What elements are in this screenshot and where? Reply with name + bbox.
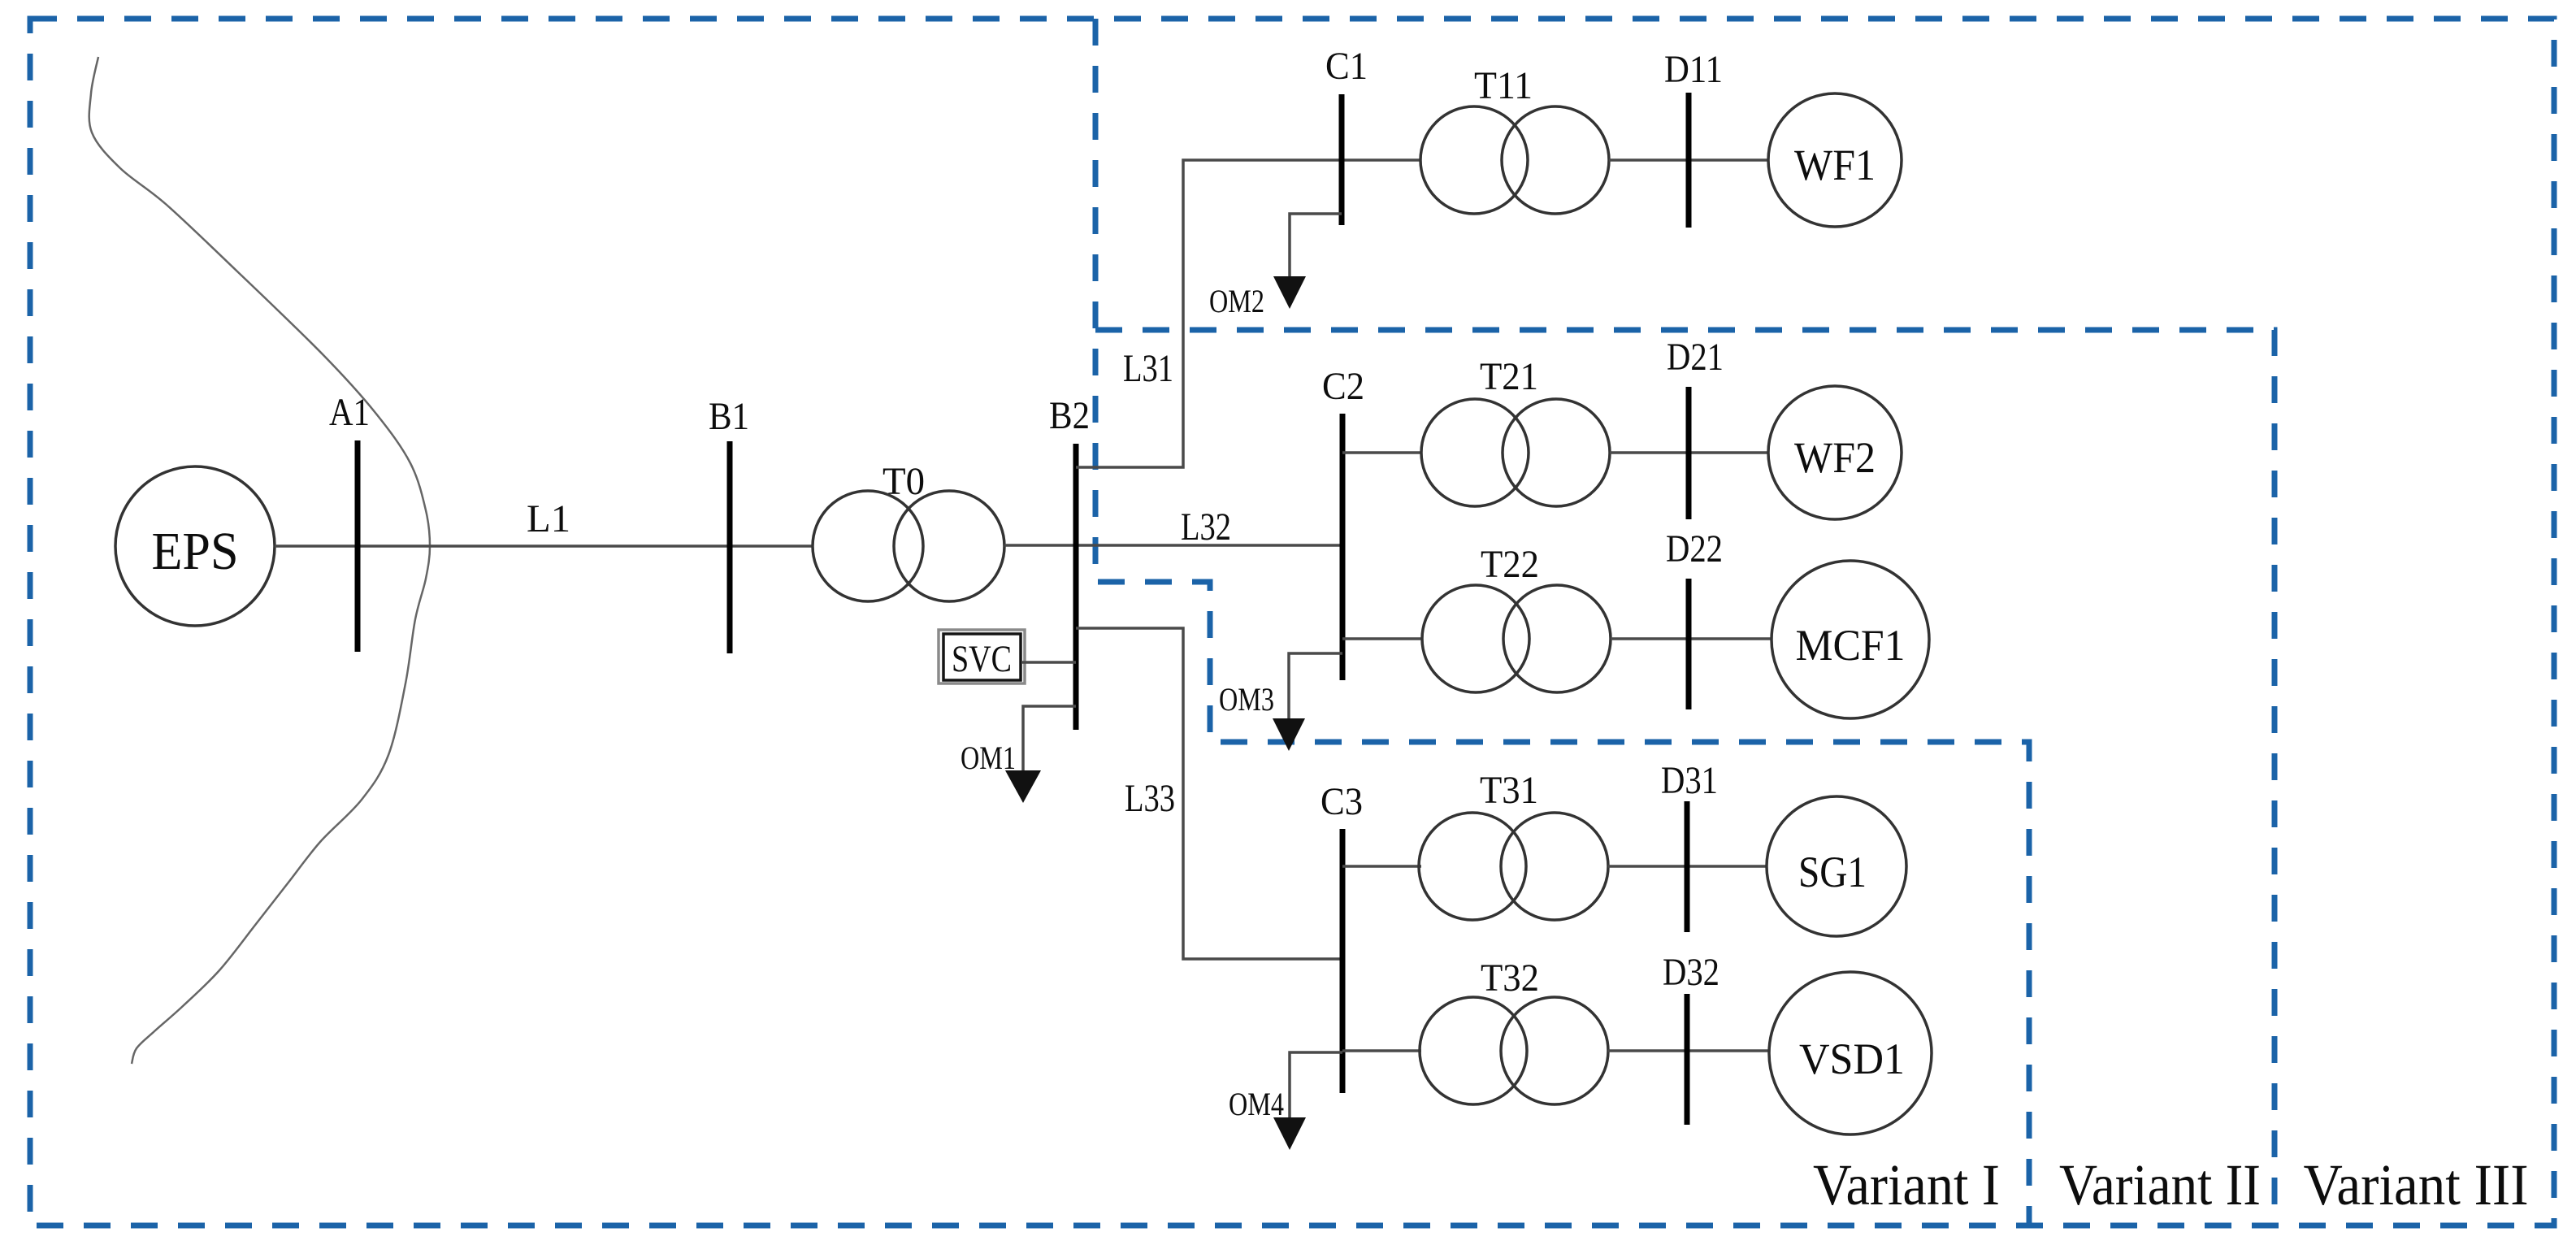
bus D11 [1686, 93, 1692, 228]
svg-text:L31: L31 [1123, 347, 1173, 390]
label L31 [1123, 347, 1173, 390]
wire SVC to B2 [1021, 661, 1076, 664]
svg-text:D21: D21 [1667, 336, 1724, 379]
drive VSD1 [1769, 972, 1932, 1134]
label T32 [1481, 957, 1539, 1000]
wire T31 to SG1 [1608, 865, 1767, 868]
SVC device [939, 630, 1025, 683]
bus C1 [1339, 94, 1345, 225]
label Variant II [2059, 1152, 2261, 1217]
label D32 [1663, 951, 1720, 994]
transformer T11 [1420, 106, 1609, 214]
bus D32 [1685, 994, 1690, 1125]
wire T32 to VSD1 [1608, 1049, 1769, 1052]
generator EPS [115, 466, 275, 626]
wire T0 to B2 and line L32 to C2 [1004, 544, 1342, 547]
svg-text:T21: T21 [1480, 355, 1538, 398]
dashed boundary Variant II [1095, 330, 2275, 1225]
svg-text:WF1: WF1 [1794, 141, 1876, 189]
wire T11 to WF1 [1609, 158, 1768, 162]
label A1 [329, 391, 370, 434]
svg-text:C3: C3 [1321, 780, 1363, 823]
label T0 [883, 460, 925, 503]
label C1 [1325, 45, 1368, 88]
label D31 [1661, 759, 1718, 802]
generator WF1 [1768, 93, 1902, 227]
transformer T21 [1421, 399, 1610, 506]
line L31 (B2 to C1) [1076, 160, 1420, 467]
wire T21 to WF2 [1610, 451, 1768, 454]
transformer T31 [1419, 813, 1608, 920]
wire T22 to MCF1 [1611, 637, 1772, 640]
bus D21 [1686, 387, 1692, 519]
bus D22 [1686, 579, 1692, 709]
label T21 [1480, 355, 1538, 398]
label T11 [1474, 64, 1533, 107]
svg-text:SVC: SVC [952, 638, 1012, 680]
label C3 [1321, 780, 1363, 823]
svg-text:T32: T32 [1481, 957, 1539, 1000]
svg-text:D32: D32 [1663, 951, 1720, 994]
label D11 [1664, 48, 1723, 91]
generator SG1 [1767, 796, 1906, 936]
bus D31 [1685, 801, 1690, 932]
svg-text:OM3: OM3 [1219, 681, 1274, 718]
svg-text:L33: L33 [1125, 777, 1175, 820]
svg-text:T11: T11 [1474, 64, 1533, 107]
transformer T0 [813, 491, 1004, 601]
label C2 [1322, 365, 1364, 408]
svg-text:OM2: OM2 [1209, 283, 1264, 319]
svg-text:D11: D11 [1664, 48, 1723, 91]
svg-text:C2: C2 [1322, 365, 1364, 408]
bus C2 [1340, 414, 1346, 680]
svg-text:Variant I: Variant I [1813, 1152, 2000, 1217]
label L33 [1125, 777, 1175, 820]
svg-text:SG1: SG1 [1798, 848, 1867, 896]
transformer T22 [1422, 585, 1611, 692]
label D21 [1667, 336, 1724, 379]
wire L1 (EPS to T0) [275, 544, 813, 548]
load OM3 [1219, 653, 1342, 751]
svg-text:Variant III: Variant III [2304, 1152, 2529, 1217]
load OM1 [961, 706, 1076, 803]
bus B2 [1073, 444, 1079, 730]
label T22 [1481, 543, 1539, 586]
wire C3 to T31 [1342, 865, 1421, 868]
load OM4 [1229, 1052, 1342, 1150]
svg-text:OM4: OM4 [1229, 1086, 1284, 1122]
svg-text:B1: B1 [709, 395, 749, 438]
svg-text:B2: B2 [1049, 394, 1090, 437]
svg-text:D22: D22 [1666, 527, 1723, 570]
label D22 [1666, 527, 1723, 570]
transformer T32 [1420, 997, 1608, 1104]
svg-text:EPS: EPS [152, 522, 239, 581]
label Variant III [2304, 1152, 2529, 1217]
svg-text:L32: L32 [1181, 505, 1231, 549]
wire C2 to T22 [1342, 637, 1422, 640]
bus B1 [727, 441, 733, 653]
label B1 [709, 395, 749, 438]
wire C3 to T32 [1342, 1049, 1421, 1052]
load OM2 [1209, 214, 1342, 319]
label B2 [1049, 394, 1090, 437]
motor MCF1 [1772, 561, 1929, 718]
svg-text:VSD1: VSD1 [1799, 1035, 1905, 1083]
label T31 [1480, 769, 1538, 812]
svg-text:T31: T31 [1480, 769, 1538, 812]
bus A1 [355, 440, 361, 652]
wire C2 to T21 [1342, 451, 1422, 454]
bus C3 [1340, 829, 1346, 1093]
svg-text:OM1: OM1 [961, 740, 1016, 776]
svg-text:L1: L1 [527, 497, 570, 540]
svg-text:C1: C1 [1325, 45, 1368, 88]
label L32 [1181, 505, 1231, 549]
generator WF2 [1768, 386, 1902, 519]
label L1 [527, 497, 570, 540]
wavy utility boundary curve [89, 57, 430, 1064]
label Variant I [1813, 1152, 2000, 1217]
svg-text:MCF1: MCF1 [1796, 621, 1906, 670]
svg-text:T0: T0 [883, 460, 925, 503]
svg-text:A1: A1 [329, 391, 370, 434]
dashed boundary Variant I [1095, 19, 2029, 1225]
svg-text:WF2: WF2 [1794, 433, 1876, 482]
svg-text:T22: T22 [1481, 543, 1539, 586]
svg-text:D31: D31 [1661, 759, 1718, 802]
svg-text:Variant II: Variant II [2059, 1152, 2261, 1217]
line L33 (B2 to C3) [1076, 628, 1342, 959]
